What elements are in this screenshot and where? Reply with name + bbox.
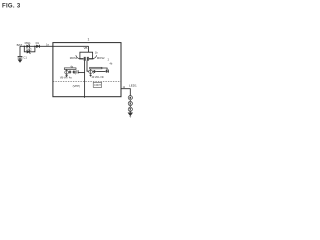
wire main supply horizontal [20,45,89,47]
svg-text:DW2: DW2 [26,47,32,51]
svg-text:MOS1: MOS1 [70,56,78,60]
zener DW1 [27,45,30,48]
svg-text:1b: 1b [95,52,98,55]
svg-text:FIG. 3: FIG. 3 [2,3,21,9]
wire output to LED chain [121,89,130,96]
wire gate MOS1 down [84,61,86,98]
svg-text:VD1-Vth: VD1-Vth [95,76,105,79]
transistor Q2 [72,70,76,73]
svg-text:VB-Vth: VB-Vth [60,77,68,80]
wire to Q4 [96,71,105,73]
ground (under right circle) [90,75,92,77]
wire gate MOS2 down [87,61,89,72]
ground (under left circle) [66,75,68,77]
svg-text:4b: 4b [110,63,113,66]
node A junction dot [24,46,26,48]
transistor MOS2 [92,55,94,59]
level shifter block 4a [64,68,76,70]
wire to ground [129,111,131,112]
capacitor C1 [18,56,23,59]
ground (left) [18,60,22,63]
transistor MOS1 [79,55,81,59]
ground (LED chain) [128,113,133,116]
svg-text:4a: 4a [69,76,72,79]
node VB [88,46,90,52]
LED LD2 [129,100,131,102]
svg-text:LED1: LED1 [129,83,137,87]
dashed divider [53,81,121,83]
wire C1 drop [19,46,21,56]
LED LD1 [128,96,132,100]
svg-text:MOS2: MOS2 [97,56,105,60]
svg-text:2: 2 [108,58,110,61]
current source circle (left) [65,71,69,75]
svg-text:VB: VB [84,46,88,50]
transistor Q3 [93,70,97,73]
svg-text:C1: C1 [23,56,27,60]
wire top rail [80,52,93,54]
zener DW2 [27,50,30,53]
svg-text:(VPP): (VPP) [73,84,81,88]
transistor Q1 [69,71,72,74]
IC box U1 [53,43,121,97]
svg-text:DW1: DW1 [25,41,31,45]
wire lower branch [24,46,35,52]
current source circle (right) [89,70,93,74]
transistor Q4 [105,70,108,73]
svg-text:CONT: CONT [94,84,101,87]
wire gate tap to left block [78,72,85,74]
block CONT [93,83,102,88]
level shifter block 4b [90,67,102,69]
diode D1 [36,45,39,48]
node B junction dot [34,46,36,48]
svg-text:1: 1 [88,38,90,42]
svg-text:D1: D1 [36,41,40,45]
LED LD3 [129,106,131,108]
